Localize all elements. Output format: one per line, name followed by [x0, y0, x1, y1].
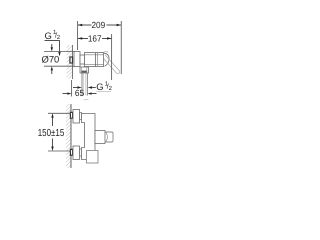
svg-text:209: 209 [92, 20, 106, 30]
svg-text:150±15: 150±15 [38, 128, 65, 139]
svg-text:Ø70: Ø70 [42, 53, 60, 64]
svg-text:167: 167 [88, 33, 102, 43]
svg-text:2: 2 [109, 85, 113, 92]
svg-text:65: 65 [75, 88, 84, 98]
svg-text:2: 2 [57, 34, 61, 41]
svg-text:G: G [96, 81, 103, 92]
svg-text:G: G [45, 30, 52, 41]
